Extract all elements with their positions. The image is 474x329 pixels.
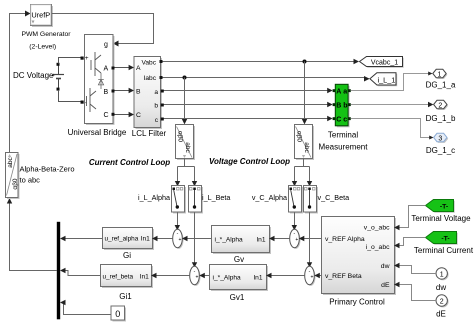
wire Terminal c to port DG_1_c — [351, 119, 434, 140]
svg-text:UrefP: UrefP — [31, 10, 50, 19]
svg-text:DC Voltage: DC Voltage — [13, 71, 54, 80]
wire i_L_Beta selector to sum S3 (crosses alpha row) — [192, 213, 197, 268]
wire junction Vabc down to abc-to-alphabeta (voltage) — [302, 62, 307, 125]
svg-text:i_L_1: i_L_1 — [377, 75, 395, 84]
wire Primary v_REF Alpha to sum S2 — [299, 236, 321, 241]
svg-text:dE: dE — [381, 282, 390, 289]
block LCL Filter — [134, 57, 162, 130]
svg-text:Terminal Current: Terminal Current — [414, 246, 474, 255]
svg-text:DG_1_c: DG_1_c — [426, 146, 455, 155]
wire Primary v_REF Beta to sum S4 — [314, 273, 321, 278]
svg-text:i_*_Alpha: i_*_Alpha — [213, 275, 242, 282]
svg-text:C: C — [104, 112, 109, 119]
svg-text:C: C — [136, 112, 141, 119]
svg-text:i_*_Alpha: i_*_Alpha — [215, 237, 244, 244]
svg-text:i_L_Alpha: i_L_Alpha — [138, 193, 170, 202]
svg-text:v_REF Alpha: v_REF Alpha — [325, 236, 365, 243]
wire from tag Terminal Current to Primary i_o_abc — [394, 238, 426, 249]
sum S1 (current alpha) — [173, 229, 184, 249]
wire constant 0 to mux input 3 — [60, 300, 111, 315]
svg-text:dE: dE — [436, 310, 446, 319]
selector v_C_Beta — [304, 186, 319, 214]
svg-text:Vcabc_1: Vcabc_1 — [371, 60, 398, 67]
wire port 2 to Primary dE — [394, 282, 436, 301]
sum S3 (current beta) — [190, 266, 201, 286]
svg-text:abc: abc — [184, 142, 191, 153]
svg-text:+: + — [295, 237, 298, 243]
label PWM Generator (2-Level) — [21, 31, 71, 51]
svg-text:+: + — [311, 274, 314, 280]
svg-text:Gi1: Gi1 — [119, 292, 132, 301]
IGBT symbols inside bridge — [91, 52, 101, 76]
block alpha-beta-zero to abc — [6, 153, 20, 200]
block Gi1 (current controller beta, mirrored) — [101, 265, 154, 289]
wire junction Iabc down to abc-to-alphabeta (current) — [182, 78, 187, 125]
svg-text:Voltage Control Loop: Voltage Control Loop — [209, 157, 290, 166]
svg-text:v_REF Beta: v_REF Beta — [325, 273, 362, 280]
svg-text:A: A — [104, 66, 109, 73]
wire Gi output to mux input 1 — [60, 236, 102, 241]
DC voltage source battery — [52, 63, 65, 91]
svg-text:i_L_Beta: i_L_Beta — [202, 193, 230, 202]
svg-text:In1: In1 — [253, 275, 262, 282]
svg-text:B: B — [336, 103, 341, 110]
svg-text:b: b — [343, 103, 347, 110]
svg-text:+: + — [179, 237, 182, 243]
goto tag Vcabc_1 — [360, 57, 404, 68]
label Alpha-Beta-Zero to abc — [20, 165, 75, 185]
svg-text:g: g — [104, 42, 108, 49]
svg-text:Measurement: Measurement — [319, 143, 369, 152]
svg-text:abc: abc — [303, 142, 310, 153]
wire Gi1 output to mux input 2 — [60, 268, 100, 276]
svg-text:In1: In1 — [140, 274, 149, 281]
wire split from current transform to selectors — [175, 159, 197, 187]
svg-text:i_o_abc: i_o_abc — [366, 244, 390, 251]
output port 1 — [433, 69, 448, 79]
wire i_L_Alpha selector to sum S1 — [175, 213, 180, 231]
svg-text:1: 1 — [440, 271, 444, 278]
svg-text:LCL Filter: LCL Filter — [132, 129, 167, 138]
svg-text:Iabc: Iabc — [144, 75, 157, 82]
svg-text:In1: In1 — [141, 236, 150, 243]
wire from tag Terminal Voltage to Primary v_o_abc — [394, 206, 426, 231]
svg-text:αβ0: αβ0 — [177, 131, 184, 142]
svg-text:to abc: to abc — [20, 176, 41, 185]
svg-text:Terminal Voltage: Terminal Voltage — [411, 214, 471, 223]
goto tag i_L_1 — [370, 73, 397, 87]
svg-text:c: c — [343, 117, 347, 124]
svg-text:v_C_Beta: v_C_Beta — [318, 193, 350, 202]
wire Terminal a to port DG_1_a — [351, 72, 433, 91]
wire LCL Iabc to goto i_L_1 with junction — [160, 76, 370, 82]
selector v_C_Alpha — [289, 186, 304, 214]
output port 3 — [434, 133, 449, 143]
svg-text:2: 2 — [440, 299, 444, 306]
wire Gv output to sum S1 — [182, 236, 211, 241]
svg-text:αβ0: αβ0 — [12, 178, 19, 189]
wire LCL a to Terminal Measurement A — [161, 88, 333, 93]
block abc to alpha-beta-zero (current measurement) — [176, 125, 196, 161]
svg-text:a: a — [343, 89, 347, 96]
wire: alpha-beta-zero-to-abc output up left edge to UrefP input — [10, 11, 31, 153]
svg-text:u_ref_alpha: u_ref_alpha — [105, 236, 139, 243]
block Universal Bridge U1 — [85, 35, 115, 126]
svg-text:-T-: -T- — [441, 236, 449, 243]
wire Terminal b to port DG_1_b — [351, 102, 434, 107]
svg-text:b: b — [154, 103, 158, 110]
svg-text:v_o_abc: v_o_abc — [364, 225, 390, 232]
wire sum S1 output to Gi In1 — [152, 236, 173, 241]
svg-text:Vabc: Vabc — [141, 60, 156, 67]
svg-text:C: C — [336, 117, 341, 124]
input port 1 (dw) — [436, 268, 449, 281]
svg-text:Current Control Loop: Current Control Loop — [89, 158, 170, 167]
svg-text:Terminal: Terminal — [328, 131, 358, 140]
wire v_C_Beta selector to sum S4 (crosses alpha row) — [307, 213, 312, 268]
svg-text:A: A — [136, 65, 141, 72]
svg-text:Gi: Gi — [123, 251, 131, 260]
output port 2 — [434, 100, 449, 110]
svg-text:Gv1: Gv1 — [230, 293, 245, 302]
svg-text:2: 2 — [438, 103, 442, 110]
from tag Terminal Voltage — [426, 200, 455, 213]
selector i_L_Beta — [189, 186, 204, 214]
sum S4 (voltage beta) — [305, 266, 316, 286]
svg-text:a: a — [154, 89, 158, 96]
wire Gv1 output to sum S3 — [199, 273, 209, 278]
block Gv (voltage controller alpha, mirrored) — [212, 226, 272, 255]
wire sum S2 output to Gv In1 — [269, 236, 290, 241]
svg-text:dw: dw — [381, 263, 390, 270]
svg-text:dw: dw — [436, 283, 446, 292]
sum S2 (voltage alpha) — [290, 229, 301, 249]
mux (3 to 1 vector) — [57, 222, 60, 319]
svg-text:DG_1_a: DG_1_a — [426, 81, 456, 90]
constant 0 block — [111, 306, 126, 322]
svg-text:1: 1 — [438, 72, 442, 79]
block Gi (current controller alpha, mirrored) — [103, 228, 155, 251]
svg-text:abc: abc — [7, 157, 14, 168]
wire LCL Vabc to goto Vcabc_1 with junction — [160, 59, 360, 64]
wire split from voltage transform to selectors — [292, 159, 312, 187]
wire mux output to alpha-beta-zero-to-abc input — [7, 198, 57, 271]
svg-text:In1: In1 — [256, 237, 265, 244]
wire sum S4 output to Gv1 In1 — [266, 273, 305, 278]
svg-text:Alpha-Beta-Zero: Alpha-Beta-Zero — [20, 165, 75, 174]
svg-text:DG_1_b: DG_1_b — [426, 114, 456, 123]
svg-text:PWM Generator: PWM Generator — [21, 31, 71, 38]
wire v_C_Alpha selector to sum S2 — [292, 213, 297, 231]
svg-text:B: B — [136, 89, 141, 96]
wire LCL b to Terminal Measurement B — [161, 102, 333, 107]
wire: DC- to bridge - port — [59, 90, 84, 104]
svg-text:A: A — [336, 89, 341, 96]
wire LCL c to Terminal Measurement C — [161, 116, 333, 121]
wire bridge C to LCL C — [112, 112, 135, 117]
wire: DC+ to bridge + port — [59, 57, 84, 64]
block Terminal Measurement — [333, 84, 351, 127]
svg-text:0: 0 — [115, 309, 120, 319]
svg-text:u_ref_beta: u_ref_beta — [103, 274, 134, 281]
svg-text:Gv: Gv — [234, 255, 244, 264]
svg-text:(2-Level): (2-Level) — [29, 44, 56, 51]
input port 2 (dE) — [436, 295, 449, 308]
svg-text:v_C_Alpha: v_C_Alpha — [252, 193, 287, 202]
svg-text:αβ0: αβ0 — [296, 131, 303, 142]
wire bridge A to LCL A — [112, 65, 135, 70]
label Terminal Measurement — [319, 131, 369, 152]
svg-text:+: + — [196, 274, 199, 280]
wire bridge B to LCL B — [112, 88, 135, 93]
from tag Terminal Current — [426, 232, 458, 245]
block Primary Control — [322, 217, 397, 296]
block UrefP (PWM Generator subsystem) — [31, 5, 54, 28]
svg-text:Universal Bridge: Universal Bridge — [68, 128, 127, 137]
svg-text:Primary Control: Primary Control — [329, 298, 385, 307]
svg-text:3: 3 — [438, 136, 442, 143]
wire: UrefP output to bridge gate g — [52, 14, 154, 47]
wire port 1 to Primary dw — [394, 263, 436, 274]
block abc to alpha-beta-zero (voltage measurement) — [295, 125, 315, 161]
svg-text:B: B — [104, 89, 109, 96]
svg-text:+: + — [85, 55, 89, 62]
wire sum S3 output to Gi1 In1 — [151, 273, 190, 278]
block Gv1 (voltage controller beta, mirrored) — [210, 265, 269, 292]
selector i_L_Alpha — [172, 186, 187, 214]
svg-text:-T-: -T- — [440, 204, 448, 211]
